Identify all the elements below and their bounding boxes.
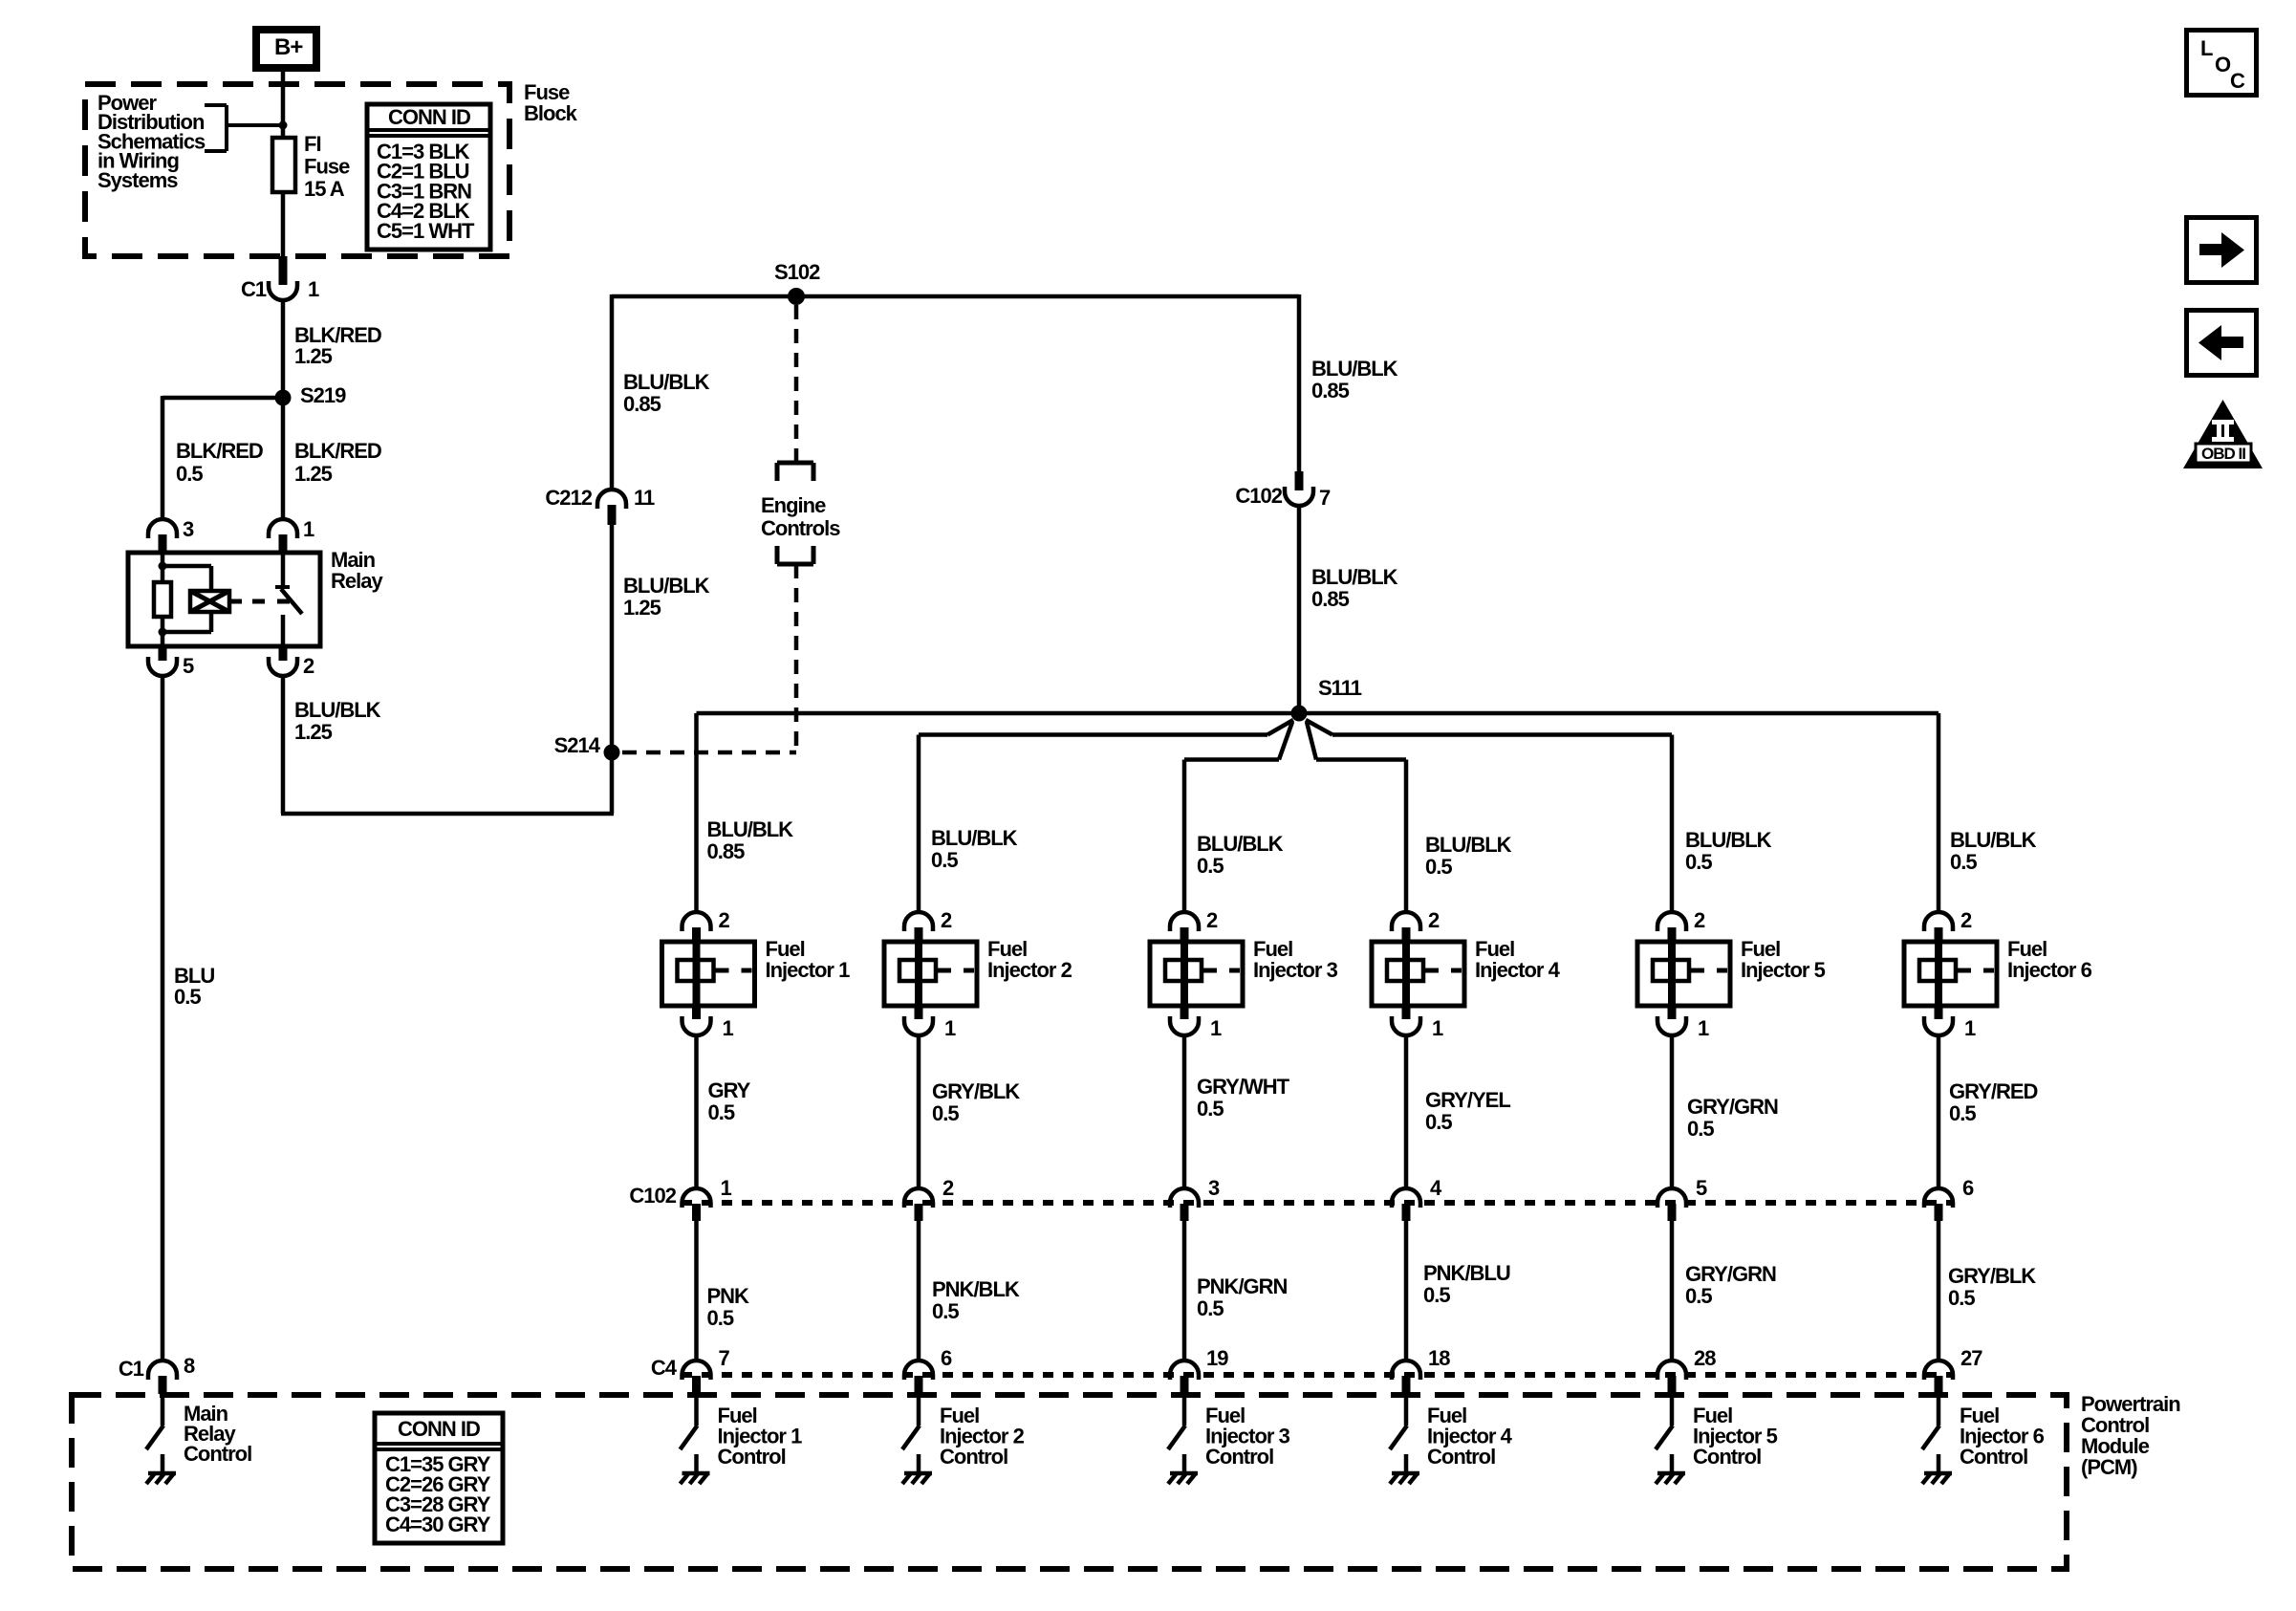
fuel injector 4 pin 1	[1402, 1005, 1411, 1019]
splice S214	[604, 745, 620, 761]
battery B+ terminal	[256, 30, 316, 68]
fuse FI 15 A	[272, 138, 295, 192]
wire relay pin 2, BLU/BLK 1.25	[281, 675, 286, 814]
wire GRY/BLK 0.5	[1937, 1221, 1941, 1361]
svg-text:8: 8	[184, 1354, 195, 1378]
svg-text:19: 19	[1206, 1346, 1228, 1370]
svg-text:Systems: Systems	[97, 168, 178, 192]
svg-text:BLU/BLK: BLU/BLK	[1311, 565, 1398, 589]
svg-text:Control: Control	[1693, 1445, 1761, 1469]
svg-text:5: 5	[1696, 1176, 1707, 1200]
fuse block dashed enclosure	[85, 84, 509, 256]
wire GRY/YEL 0.5	[1404, 1034, 1409, 1189]
svg-text:S214: S214	[554, 733, 601, 757]
svg-text:2: 2	[719, 908, 730, 932]
wire PNK/BLK 0.5	[917, 1221, 921, 1361]
svg-text:C102: C102	[629, 1184, 676, 1208]
fuel injector 6 pin 2	[1924, 912, 1953, 931]
connector C102 pin 6	[1924, 1188, 1953, 1208]
svg-text:BLU/BLK: BLU/BLK	[1950, 828, 2037, 852]
relay actuator link (dashed)	[229, 599, 242, 604]
next-page arrow icon	[2187, 218, 2257, 283]
ground (injector 2 driver)	[917, 1454, 921, 1473]
svg-text:S102: S102	[774, 260, 820, 284]
connector C1 pin 1	[279, 256, 288, 285]
svg-text:GRY/RED: GRY/RED	[1949, 1079, 2038, 1103]
relay pin 3	[148, 519, 177, 538]
svg-text:28: 28	[1694, 1346, 1716, 1370]
fuel injector 5 pin 2	[1657, 912, 1686, 931]
svg-text:S219: S219	[300, 383, 346, 407]
PCM fuel injector 5 driver switch	[1670, 1394, 1675, 1398]
svg-text:0.85: 0.85	[707, 839, 746, 863]
svg-text:Control: Control	[1960, 1445, 2027, 1469]
svg-text:BLU/BLK: BLU/BLK	[931, 826, 1018, 850]
svg-text:0.5: 0.5	[1685, 1284, 1712, 1308]
wire PNK 0.5	[694, 1221, 699, 1361]
svg-text:Block: Block	[524, 101, 578, 125]
fuel injector 5 pin 1	[1668, 1005, 1677, 1019]
svg-text:BLK/RED: BLK/RED	[294, 439, 381, 463]
wire fuse to connector C1	[281, 192, 286, 258]
wire B+ to fuse	[281, 72, 286, 136]
svg-text:6: 6	[1962, 1176, 1974, 1200]
svg-text:1.25: 1.25	[294, 720, 333, 744]
svg-text:BLU/BLK: BLU/BLK	[707, 817, 794, 841]
svg-text:C212: C212	[545, 486, 592, 510]
svg-text:Relay: Relay	[331, 569, 383, 593]
svg-text:OBD II: OBD II	[2201, 445, 2245, 463]
bracket from note to wire	[205, 103, 227, 107]
PCM fuel injector 4 driver switch	[1404, 1394, 1409, 1398]
ground (injector 1 driver)	[694, 1454, 699, 1473]
svg-text:(PCM): (PCM)	[2081, 1455, 2137, 1479]
svg-text:PNK/BLK: PNK/BLK	[932, 1277, 1020, 1301]
connector C4 pin 7	[682, 1361, 711, 1380]
svg-text:Injector 1: Injector 1	[766, 958, 851, 982]
junction on B+ wire	[279, 121, 288, 130]
wire relay pin 5 down to PCM (BLU 0.5)	[161, 675, 165, 1361]
svg-text:Control: Control	[1205, 1445, 1273, 1469]
svg-text:0.85: 0.85	[1311, 379, 1350, 403]
svg-text:L: L	[2200, 36, 2213, 60]
fan-out level 2 wires	[1267, 720, 1293, 735]
svg-text:Injector 4: Injector 4	[1475, 958, 1561, 982]
dashed wire S214 to engine controls	[622, 751, 796, 755]
svg-text:C4: C4	[651, 1356, 678, 1380]
fuel injector 3 pin 2	[1170, 912, 1199, 931]
svg-text:0.5: 0.5	[1949, 1101, 1976, 1125]
svg-text:Injector 6: Injector 6	[2007, 958, 2092, 982]
fuel injector 5	[1637, 942, 1730, 1006]
svg-text:1.25: 1.25	[294, 344, 333, 368]
svg-text:3: 3	[183, 517, 194, 541]
svg-text:3: 3	[1208, 1176, 1220, 1200]
fuel injector 6 pin 1	[1935, 1005, 1943, 1019]
ground (injector 3 driver)	[1182, 1454, 1187, 1473]
svg-text:0.5: 0.5	[1425, 855, 1452, 879]
connector C102 dashed line	[682, 1200, 1953, 1206]
relay coil resistor branch	[161, 553, 165, 582]
splice S111	[1291, 706, 1308, 722]
svg-text:0.85: 0.85	[1311, 587, 1350, 611]
svg-text:4: 4	[1430, 1176, 1442, 1200]
wire GRY/WHT 0.5	[1182, 1034, 1187, 1189]
svg-text:BLU/BLK: BLU/BLK	[623, 574, 710, 598]
svg-text:C5=1 WHT: C5=1 WHT	[377, 219, 475, 243]
svg-text:2: 2	[942, 1176, 954, 1200]
svg-text:FI: FI	[304, 132, 321, 156]
svg-text:2: 2	[303, 654, 314, 678]
previous-page arrow icon	[2187, 311, 2257, 376]
svg-text:PNK: PNK	[707, 1284, 750, 1308]
svg-text:0.5: 0.5	[1948, 1286, 1975, 1310]
svg-text:0.5: 0.5	[1423, 1283, 1450, 1307]
svg-text:0.5: 0.5	[1197, 1296, 1224, 1320]
svg-text:0.5: 0.5	[932, 1299, 959, 1323]
fan-out level 3 wires	[1279, 722, 1292, 760]
svg-text:15 A: 15 A	[304, 177, 345, 201]
relay pin 1	[269, 519, 297, 538]
svg-text:0.5: 0.5	[1197, 854, 1224, 878]
PCM fuel injector 3 driver switch	[1182, 1394, 1187, 1398]
svg-text:11: 11	[634, 486, 655, 510]
fuel injector 3	[1150, 942, 1243, 1006]
svg-text:0.5: 0.5	[1687, 1117, 1714, 1141]
svg-text:1: 1	[1210, 1016, 1222, 1040]
connector C4 pin 27	[1924, 1361, 1953, 1380]
fuel injector 2 pin 2	[904, 912, 933, 931]
wire C102 pin 7 to S111	[1297, 505, 1302, 715]
svg-text:C: C	[2230, 69, 2245, 93]
svg-text:1: 1	[1432, 1016, 1443, 1040]
connector C102 pin 4	[1392, 1188, 1420, 1208]
svg-text:Engine: Engine	[761, 493, 826, 517]
svg-text:5: 5	[183, 654, 194, 678]
fuel injector 6	[1904, 942, 1997, 1006]
CONN ID table (PCM)	[375, 1413, 503, 1543]
connector C212 pin 11	[608, 505, 617, 525]
svg-text:GRY/GRN: GRY/GRN	[1685, 1262, 1776, 1286]
svg-text:GRY/BLK: GRY/BLK	[1948, 1264, 2036, 1288]
dashed wire S102 down	[794, 305, 799, 463]
wire PNK/GRN 0.5	[1182, 1221, 1187, 1361]
svg-text:0.5: 0.5	[932, 1101, 959, 1125]
svg-text:Injector 2: Injector 2	[987, 958, 1072, 982]
svg-text:0.5: 0.5	[174, 985, 201, 1009]
ground (injector 6 driver)	[1937, 1454, 1941, 1473]
svg-text:Control: Control	[1427, 1445, 1495, 1469]
fuel injector 1	[662, 942, 755, 1006]
connector C102 pin 2	[904, 1188, 933, 1208]
svg-text:PNK/GRN: PNK/GRN	[1197, 1274, 1288, 1298]
svg-text:BLU/BLK: BLU/BLK	[1197, 832, 1284, 856]
PCM fuel injector 2 driver switch	[917, 1394, 921, 1398]
fuel injector 4 pin 2	[1392, 912, 1420, 931]
connector C4 pin 28	[1657, 1361, 1686, 1380]
svg-text:2: 2	[1694, 908, 1705, 932]
svg-text:1: 1	[1964, 1016, 1976, 1040]
svg-text:2: 2	[1960, 908, 1972, 932]
svg-text:BLU/BLK: BLU/BLK	[294, 698, 381, 722]
connector C4 pin 19	[1170, 1361, 1199, 1380]
svg-text:BLU/BLK: BLU/BLK	[1311, 357, 1398, 381]
wire bus down to C102 pin 7	[1297, 294, 1302, 472]
wire GRY/BLK 0.5	[917, 1034, 921, 1189]
svg-text:C4=30 GRY: C4=30 GRY	[385, 1513, 491, 1536]
wire GRY/GRN 0.5	[1670, 1221, 1675, 1361]
connector C102 pin 7	[1285, 487, 1313, 506]
wire S219 down to relay pin 1	[281, 405, 286, 519]
wire GRY/GRN 0.5	[1670, 1034, 1675, 1189]
wire C1 to S219, BLK/RED 1.25	[281, 299, 286, 398]
svg-text:1: 1	[944, 1016, 956, 1040]
svg-text:BLU/BLK: BLU/BLK	[623, 370, 710, 394]
svg-text:18: 18	[1428, 1346, 1450, 1370]
splice S219	[275, 390, 292, 406]
svg-text:CONN ID: CONN ID	[388, 105, 470, 129]
PCM main relay driver switch	[161, 1394, 165, 1398]
fan-out level 1 wires	[697, 711, 1939, 716]
OBD II emblem	[2183, 400, 2263, 468]
powertrain control module dashed enclosure	[72, 1395, 2067, 1569]
svg-text:0.5: 0.5	[931, 848, 958, 872]
CONN ID table (fuse block)	[367, 104, 490, 250]
dashed wire engine controls to S214	[794, 564, 799, 752]
svg-text:Controls: Controls	[761, 516, 840, 540]
svg-text:2: 2	[941, 908, 952, 932]
svg-text:BLU/BLK: BLU/BLK	[1685, 828, 1772, 852]
svg-text:1: 1	[721, 1176, 732, 1200]
svg-text:0.5: 0.5	[708, 1100, 735, 1124]
svg-text:GRY/GRN: GRY/GRN	[1687, 1095, 1778, 1119]
connector C4 dashed line	[682, 1372, 1953, 1378]
svg-text:0.5: 0.5	[1950, 850, 1977, 874]
relay pin 2	[279, 646, 288, 661]
svg-text:Control: Control	[718, 1445, 786, 1469]
main bus wire	[612, 294, 1299, 299]
svg-text:GRY/WHT: GRY/WHT	[1197, 1075, 1290, 1099]
connector C1 pin 8	[148, 1361, 177, 1380]
svg-text:BLK/RED: BLK/RED	[176, 439, 263, 463]
fuel injector 1 pin 1	[692, 1005, 701, 1019]
svg-text:0.85: 0.85	[623, 392, 661, 416]
svg-text:7: 7	[719, 1346, 730, 1370]
ground (injector 4 driver)	[1404, 1454, 1409, 1473]
svg-text:1: 1	[1698, 1016, 1709, 1040]
svg-text:0.5: 0.5	[1685, 850, 1712, 874]
svg-text:C102: C102	[1235, 484, 1282, 508]
svg-text:7: 7	[1319, 486, 1331, 510]
relay switch	[281, 553, 286, 586]
svg-text:1: 1	[308, 277, 319, 301]
svg-text:Control: Control	[184, 1442, 251, 1466]
connector C102 pin 5	[1657, 1188, 1686, 1208]
connector C4 pin 18	[1392, 1361, 1420, 1380]
svg-text:1.25: 1.25	[294, 462, 333, 486]
connector C4 pin 6	[904, 1361, 933, 1380]
svg-text:Injector 3: Injector 3	[1253, 958, 1338, 982]
svg-text:1: 1	[723, 1016, 734, 1040]
ground (main relay driver)	[161, 1454, 165, 1473]
svg-text:GRY/BLK: GRY/BLK	[932, 1079, 1020, 1103]
wire C212 up to bus, BLU/BLK 0.85	[610, 294, 615, 490]
fuel injector 3 pin 1	[1180, 1005, 1189, 1019]
svg-text:0.5: 0.5	[176, 462, 203, 486]
svg-text:GRY: GRY	[708, 1078, 751, 1102]
svg-text:6: 6	[941, 1346, 952, 1370]
fuel injector 4	[1372, 942, 1464, 1006]
svg-text:B+: B+	[274, 34, 303, 60]
splice S102	[788, 288, 805, 305]
svg-text:0.5: 0.5	[1425, 1110, 1452, 1134]
svg-text:1.25: 1.25	[623, 596, 661, 620]
svg-text:S111: S111	[1318, 676, 1362, 700]
ground (injector 5 driver)	[1670, 1454, 1675, 1473]
engine controls reference	[777, 461, 813, 466]
fuel injector 1 pin 2	[682, 912, 711, 931]
relay coil	[162, 564, 211, 569]
wire GRY/RED 0.5	[1937, 1034, 1941, 1189]
wire GRY 0.5	[694, 1034, 699, 1189]
svg-text:0.5: 0.5	[1197, 1097, 1224, 1121]
svg-text:Injector 5: Injector 5	[1741, 958, 1826, 982]
svg-text:27: 27	[1960, 1346, 1982, 1370]
svg-text:PNK/BLU: PNK/BLU	[1423, 1261, 1510, 1285]
svg-text:2: 2	[1428, 908, 1440, 932]
svg-text:CONN ID: CONN ID	[398, 1417, 480, 1441]
connector C102 pin 1	[682, 1188, 711, 1208]
wire PNK/BLU 0.5	[1404, 1221, 1409, 1361]
svg-text:0.5: 0.5	[707, 1306, 734, 1330]
svg-text:2: 2	[1206, 908, 1218, 932]
fuel injector 2 pin 1	[915, 1005, 923, 1019]
main relay box	[128, 553, 320, 646]
svg-text:1: 1	[303, 517, 314, 541]
svg-text:BLU/BLK: BLU/BLK	[1425, 833, 1512, 857]
relay pin 5	[159, 646, 167, 661]
svg-text:C1: C1	[241, 277, 267, 301]
svg-text:Control: Control	[940, 1445, 1007, 1469]
wire S219 branch left	[162, 396, 283, 401]
PCM fuel injector 1 driver switch	[694, 1394, 699, 1398]
svg-text:Fuse: Fuse	[304, 155, 350, 179]
svg-text:GRY/YEL: GRY/YEL	[1425, 1088, 1510, 1112]
LOC legend icon	[2187, 31, 2257, 96]
PCM fuel injector 6 driver switch	[1937, 1394, 1941, 1398]
svg-text:O: O	[2215, 53, 2231, 76]
svg-text:C1: C1	[119, 1357, 144, 1381]
fuel injector 2	[884, 942, 977, 1006]
connector C102 pin 3	[1170, 1188, 1199, 1208]
